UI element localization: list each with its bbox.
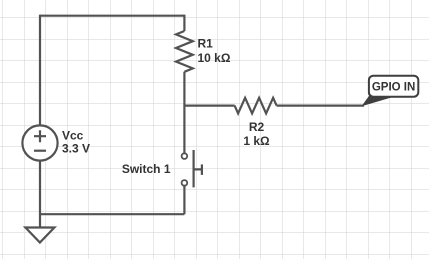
svg-text:GPIO IN: GPIO IN xyxy=(372,82,415,94)
wire R2 to callout xyxy=(277,104,364,106)
voltage source minus sign xyxy=(34,150,46,152)
wire left vertical upper xyxy=(39,15,41,126)
wire junction to R2 xyxy=(184,104,234,106)
ground xyxy=(25,228,54,243)
voltage source plus sign xyxy=(34,130,46,142)
svg-text:Switch 1: Switch 1 xyxy=(122,162,171,176)
switch actuator bar xyxy=(193,150,195,187)
resistor R1 xyxy=(176,31,193,72)
svg-text:R1: R1 xyxy=(198,36,214,50)
switch actuator stem xyxy=(194,168,202,170)
voltage source V1 circle xyxy=(22,125,57,160)
svg-text:3.3 V: 3.3 V xyxy=(62,142,90,156)
svg-text:1 kΩ: 1 kΩ xyxy=(243,134,270,148)
resistor R2 xyxy=(235,98,277,114)
wire switch to bottom xyxy=(183,186,185,215)
switch SW1 top contact xyxy=(182,153,188,159)
wire bottom horizontal xyxy=(40,213,184,215)
node label GPIO IN callout tail xyxy=(362,93,394,107)
wire right vertical above R1 xyxy=(183,15,185,31)
wire top horizontal xyxy=(40,15,184,17)
svg-text:Vcc: Vcc xyxy=(62,129,84,143)
svg-text:10 kΩ: 10 kΩ xyxy=(198,51,231,65)
svg-text:R2: R2 xyxy=(249,120,265,134)
wire left vertical lower xyxy=(39,161,41,228)
wire R1 to switch xyxy=(183,72,185,154)
switch actuator cap xyxy=(201,164,203,175)
node label GPIO IN box xyxy=(369,76,418,97)
switch SW1 bottom contact xyxy=(182,180,188,186)
